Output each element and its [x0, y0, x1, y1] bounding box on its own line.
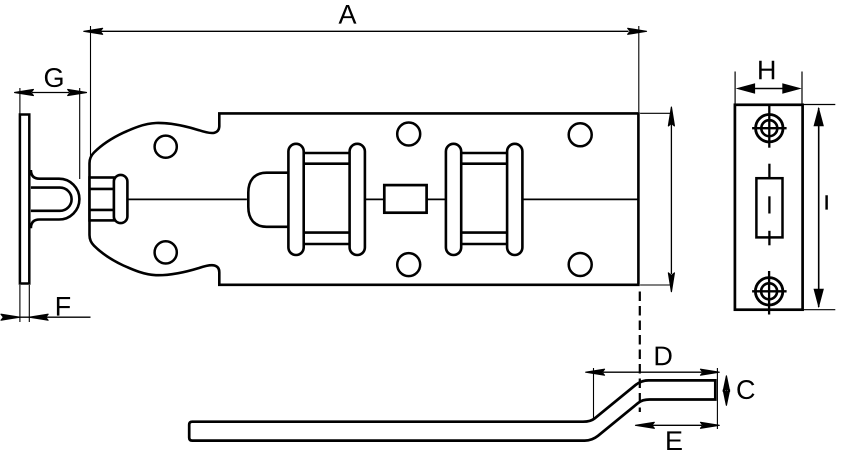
keeper bottom screw hole — [755, 278, 782, 305]
dimension G left arrow — [15, 90, 34, 96]
bolt knob capsule — [114, 175, 128, 223]
dimension E left arrow — [636, 422, 655, 428]
dimension F right arrow — [29, 314, 48, 320]
label C — [737, 380, 754, 399]
dimension I line — [818, 108, 820, 307]
bolt tail block — [90, 178, 115, 221]
label H — [759, 61, 774, 80]
right height dimension bottom arrow — [668, 273, 674, 292]
dimension G extension line right — [79, 88, 81, 179]
dimension E right arrow — [701, 422, 720, 428]
dimension H extension lines — [734, 72, 736, 105]
bolt head housing — [248, 173, 288, 227]
dimension D left arrow — [586, 369, 605, 375]
label A — [339, 5, 357, 24]
projection dashed line — [639, 292, 641, 413]
dimension H left arrow — [736, 83, 756, 93]
dimension F left arrow — [1, 314, 20, 320]
dimension D extension left — [593, 368, 595, 419]
dimension A left arrow — [84, 28, 103, 34]
dimension D right arrow — [701, 369, 720, 375]
right height dimension top arrow — [668, 107, 674, 126]
bolt rod segment 2 — [365, 198, 384, 200]
dimension A line — [101, 30, 629, 32]
dimension D line — [603, 371, 702, 373]
dimension H line — [752, 88, 785, 90]
right height dimension extension bottom — [640, 284, 670, 286]
guide 2 right capsule — [507, 144, 522, 255]
dimension I bottom arrow — [814, 289, 824, 309]
dimension H right arrow — [782, 83, 802, 93]
screw hole top-right — [569, 123, 592, 146]
dimension I top arrow — [814, 107, 824, 127]
bolt rod segment 3 — [427, 198, 446, 200]
guide 1 straps — [296, 152, 357, 155]
guide 2 left capsule — [446, 144, 461, 255]
dimension A extension line right — [638, 26, 640, 112]
label D — [656, 347, 672, 366]
dimension C up arrow — [723, 376, 729, 391]
staple loop outer — [31, 170, 80, 228]
guide 1 left capsule — [288, 144, 303, 255]
dimension G extension line left — [19, 88, 21, 114]
keeper slot — [756, 178, 782, 237]
screw hole top-left — [155, 136, 177, 158]
label G — [45, 68, 63, 87]
dimension G line — [32, 92, 69, 94]
guide 2 straps — [453, 152, 515, 155]
dimension F line — [3, 316, 91, 318]
guide 1 right capsule — [350, 144, 365, 255]
keeper top screw hole — [756, 115, 783, 142]
staple loop inner — [31, 188, 72, 211]
dimension E line — [653, 424, 703, 426]
dimension G right arrow — [68, 90, 87, 96]
screw hole bottom-middle — [397, 253, 420, 276]
keeper slot centerline dashes — [768, 164, 770, 179]
right height dimension extension top — [640, 112, 670, 114]
dimension C line — [725, 386, 727, 395]
slide knob rectangle — [384, 185, 426, 213]
right height dimension line — [670, 124, 672, 274]
dimension A extension line left — [90, 26, 92, 163]
screw hole top-middle — [397, 123, 420, 146]
dimension C down arrow — [723, 390, 729, 405]
dimension A right arrow — [628, 28, 647, 34]
dimension F extension lines — [19, 285, 21, 322]
dimension D/E extension right — [716, 368, 718, 429]
screw hole bottom-right — [569, 253, 592, 276]
keeper plate front view — [735, 105, 803, 310]
bolt rod segment 4 — [523, 198, 639, 200]
bolt rod segment 1 — [127, 198, 246, 200]
keeper plate side view — [20, 115, 29, 284]
label I — [826, 196, 828, 210]
side view bar — [189, 380, 715, 440]
label F — [57, 297, 70, 316]
label E — [667, 431, 682, 450]
main plate outline — [90, 113, 639, 284]
dimension I extension lines — [803, 104, 836, 106]
screw hole bottom-left — [155, 241, 177, 263]
